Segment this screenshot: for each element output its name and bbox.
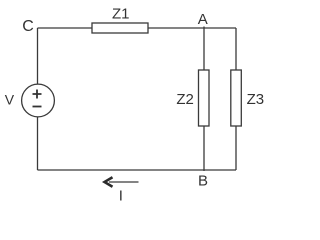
impedance Z2 bbox=[199, 70, 210, 126]
current arrow I head bbox=[105, 177, 113, 187]
svg-text:B: B bbox=[198, 173, 208, 190]
current arrow I shaft bbox=[109, 181, 139, 183]
impedance Z3 bbox=[231, 70, 242, 126]
wire Z3 to bottom right corner bbox=[235, 126, 237, 170]
wire Z2 to node B bbox=[203, 126, 205, 171]
wire left vertical lower bbox=[37, 117, 39, 170]
svg-text:Z1: Z1 bbox=[112, 5, 130, 22]
voltage source plus bbox=[33, 90, 42, 99]
resistor Z1 bbox=[92, 23, 148, 33]
svg-text:C: C bbox=[22, 18, 34, 35]
voltage source minus bbox=[33, 106, 42, 108]
wire right vertical upper bbox=[235, 28, 237, 70]
svg-text:I: I bbox=[119, 188, 123, 205]
svg-text:V: V bbox=[5, 91, 15, 107]
wire Z1 to top-right corner bbox=[148, 27, 236, 29]
svg-text:A: A bbox=[198, 11, 208, 28]
wire node A down to Z2 bbox=[203, 27, 205, 71]
voltage source V circle bbox=[22, 84, 55, 117]
svg-text:Z3: Z3 bbox=[247, 91, 265, 108]
svg-text:Z2: Z2 bbox=[176, 91, 194, 108]
wire top-left C corner to Z1 bbox=[38, 27, 93, 29]
wire left vertical upper bbox=[37, 28, 39, 85]
wire bottom bbox=[38, 169, 237, 171]
